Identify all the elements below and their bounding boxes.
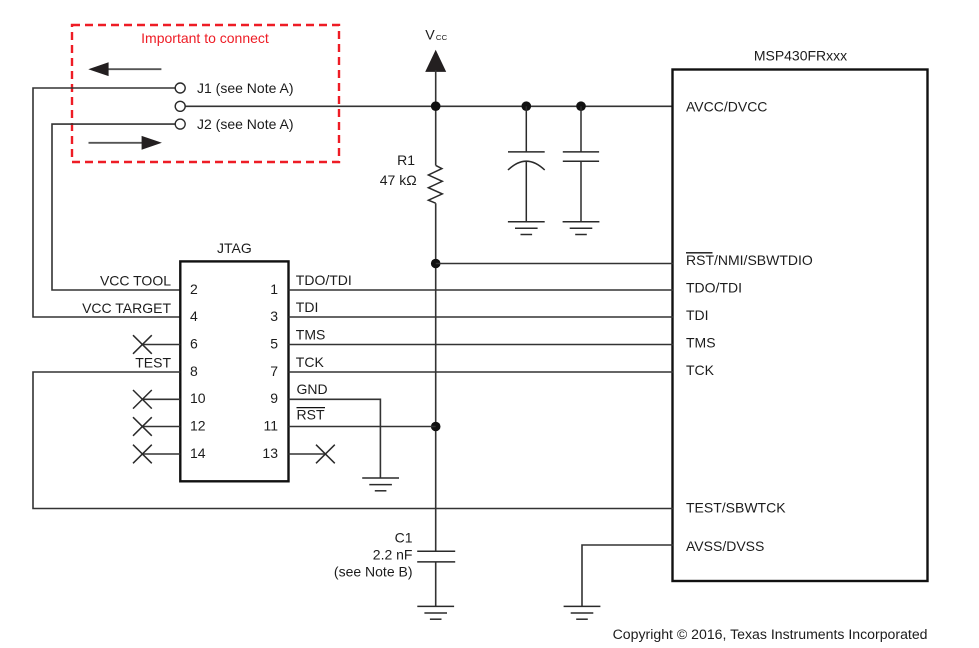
ground for AVSS — [564, 606, 601, 619]
svg-text:Copyright © 2016, Texas Instru: Copyright © 2016, Texas Instruments Inco… — [613, 626, 928, 642]
no-connect stub pin 10 — [142, 398, 180, 400]
no-connect X pin 13 — [316, 445, 335, 464]
wire common jumper pin to Vcc rail and AVCC/DVCC — [185, 105, 673, 107]
svg-text:10: 10 — [190, 390, 206, 406]
wire Vcc vertical rail (R1 to C1) — [435, 203, 437, 551]
jumper J1 pin circle — [175, 83, 185, 93]
svg-text:JTAG: JTAG — [217, 240, 252, 256]
wire AVSS/DVSS to ground — [582, 545, 673, 606]
jumper common pin circle — [175, 101, 185, 111]
svg-text:8: 8 — [190, 363, 198, 379]
junction dot Vcc/AVCC rail — [431, 101, 441, 111]
resistor R1 — [428, 165, 442, 203]
ground for C3 — [563, 222, 600, 235]
svg-text:13: 13 — [262, 445, 278, 461]
wire J2 circle to VCC TOOL (JTAG pin 2) — [52, 124, 180, 290]
svg-text:C1: C1 — [395, 529, 413, 545]
no-connect X pin 6 — [133, 335, 152, 354]
svg-text:12: 12 — [190, 418, 206, 434]
svg-text:TDO/TDI: TDO/TDI — [686, 280, 742, 296]
svg-text:TCK: TCK — [686, 362, 715, 378]
svg-text:9: 9 — [270, 390, 278, 406]
svg-text:AVSS/DVSS: AVSS/DVSS — [686, 538, 764, 554]
no-connect stub pin 12 — [142, 426, 180, 428]
wire TEST pin 8 to TEST/SBWTCK — [33, 372, 673, 509]
no-connect stub pin 13 — [289, 453, 326, 455]
junction dot bypass cap C3 — [576, 101, 586, 111]
no-connect X pin 10 — [133, 390, 152, 409]
capacitor C2 (polarized bypass) — [508, 106, 545, 222]
junction dot bypass cap C2 — [522, 101, 532, 111]
svg-text:TDI: TDI — [686, 307, 709, 323]
svg-text:TEST: TEST — [135, 354, 171, 370]
svg-text:6: 6 — [190, 336, 198, 352]
no-connect stub pin 14 — [142, 453, 180, 455]
jumper J2 pin circle — [175, 119, 185, 129]
svg-text:J2 (see Note A): J2 (see Note A) — [197, 116, 294, 132]
IC U1 MSP430FRxxx box — [673, 70, 928, 582]
svg-text:(see Note B): (see Note B) — [334, 564, 413, 580]
svg-text:TDI: TDI — [296, 299, 319, 315]
junction dot RST/NMI row — [431, 259, 441, 269]
wire pin 1 TDO/TDI to MSP — [289, 289, 674, 291]
power Vcc symbol arrow — [425, 50, 446, 72]
ground for C2 — [508, 222, 545, 235]
svg-text:2: 2 — [190, 281, 198, 297]
svg-text:RST: RST — [297, 407, 325, 423]
svg-text:AVCC/DVCC: AVCC/DVCC — [686, 99, 767, 115]
connector JTAG box — [180, 261, 288, 481]
ground for C1 — [417, 606, 454, 619]
svg-text:5: 5 — [270, 336, 278, 352]
wire pin 9 GND to ground — [289, 399, 381, 478]
capacitor C3 (bypass) — [563, 106, 599, 222]
wire pin 11 RST to Vcc rail — [289, 426, 436, 428]
svg-text:R1: R1 — [397, 152, 415, 168]
wire Vcc vertical rail (top to R1) — [435, 70, 437, 165]
arrow left (current direction out) — [88, 62, 161, 76]
capacitor C1 plates — [417, 551, 455, 562]
svg-text:TEST/SBWTCK: TEST/SBWTCK — [686, 499, 786, 515]
svg-text:TMS: TMS — [296, 326, 326, 342]
svg-text:CC: CC — [436, 33, 448, 42]
svg-text:VCC TOOL: VCC TOOL — [100, 272, 171, 288]
wire pin 7 TCK to MSP — [289, 371, 674, 373]
wire pin 3 TDI to MSP — [289, 316, 674, 318]
wire J1 circle to VCC TARGET (JTAG pin 4) — [33, 88, 180, 317]
svg-text:TCK: TCK — [296, 354, 325, 370]
red highlight box (Important to connect) — [72, 25, 339, 162]
no-connect X pin 14 — [133, 445, 152, 464]
junction dot JTAG RST row — [431, 422, 441, 432]
svg-text:2.2 nF: 2.2 nF — [373, 547, 413, 563]
svg-text:VCC TARGET: VCC TARGET — [82, 300, 171, 316]
svg-text:TMS: TMS — [686, 335, 716, 351]
svg-text:14: 14 — [190, 445, 206, 461]
no-connect stub pin 6 — [142, 344, 180, 346]
svg-text:V: V — [425, 28, 435, 44]
arrow right (current direction in) — [89, 136, 162, 150]
svg-text:3: 3 — [270, 308, 278, 324]
svg-text:MSP430FRxxx: MSP430FRxxx — [754, 48, 847, 64]
svg-text:4: 4 — [190, 308, 198, 324]
wire pin 5 TMS to MSP — [289, 344, 674, 346]
svg-text:Important to connect: Important to connect — [141, 30, 269, 46]
svg-text:RST/NMI/SBWTDIO: RST/NMI/SBWTDIO — [686, 252, 813, 268]
wire C1 to ground — [435, 562, 437, 607]
no-connect X pin 12 — [133, 417, 152, 436]
svg-text:47 kΩ: 47 kΩ — [380, 172, 417, 188]
svg-text:7: 7 — [270, 363, 278, 379]
svg-text:1: 1 — [270, 281, 278, 297]
ground for GND pin 9 — [362, 478, 399, 491]
svg-text:GND: GND — [297, 381, 328, 397]
svg-text:J1 (see Note A): J1 (see Note A) — [197, 80, 294, 96]
svg-text:TDO/TDI: TDO/TDI — [296, 272, 352, 288]
wire RST/NMI/SBWTDIO to Vcc rail — [436, 263, 673, 265]
svg-text:11: 11 — [263, 418, 278, 434]
